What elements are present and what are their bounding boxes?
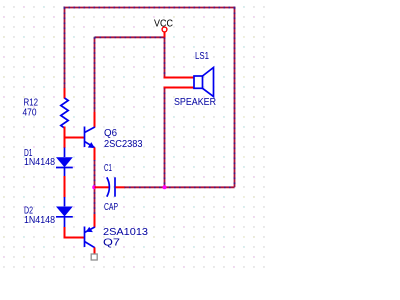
diode D1 lead top: [64, 148, 66, 158]
capacitor C1 pin left: [95, 186, 111, 188]
svg-text:CAP: CAP: [104, 202, 118, 213]
transistor Q7 collector diagonal: [85, 242, 95, 248]
junction at C1 left: [92, 185, 96, 189]
wire VCC horizontal: [95, 36, 165, 38]
wire D2 to Q7 base: [64, 227, 85, 239]
wire Q6 base: [64, 137, 85, 139]
junction at speaker drop: [163, 185, 167, 189]
transistor Q7 collector pin: [94, 248, 96, 255]
transistor Q6 emitter diagonal: [85, 142, 95, 148]
wire R12 to D1: [64, 138, 66, 149]
diode D2 body: [56, 207, 73, 217]
transistor Q7 emitter pin: [94, 214, 96, 228]
transistor Q7 emitter diagonal: [85, 227, 95, 233]
no-connect marker Q7 collector: [91, 254, 97, 260]
transistor Q6 emitter arrow: [88, 142, 95, 148]
transistor Q7 emitter arrow: [86, 227, 93, 232]
speaker LS1 pin 1: [164, 77, 195, 79]
wire cap to right drop: [124, 186, 235, 188]
grid dots: [0, 0, 269, 272]
wire D1 to D2: [64, 176, 66, 198]
wire right drop: [234, 8, 236, 188]
svg-text:LS1: LS1: [195, 51, 209, 62]
resistor R12 pin top: [64, 88, 66, 99]
capacitor C1 straight plate: [114, 177, 116, 196]
svg-text:1N4148: 1N4148: [24, 157, 55, 168]
svg-text:SPEAKER: SPEAKER: [174, 97, 216, 108]
svg-text:C1: C1: [104, 163, 112, 174]
wire Q6 collector drop: [94, 37, 96, 113]
diode D1 cathode bar: [56, 167, 73, 169]
diode D2 lead top: [64, 197, 66, 206]
power port VCC circle: [162, 27, 167, 32]
diode D1 body: [56, 157, 73, 167]
wire speaker lower drop: [164, 88, 166, 188]
svg-text:Q6: Q6: [104, 128, 117, 139]
svg-text:Q7: Q7: [103, 238, 121, 249]
wire junction to Q7 emitter: [94, 187, 96, 215]
transistor Q6 collector pin: [94, 112, 96, 128]
speaker LS1 horn: [203, 68, 214, 97]
diode D1 lead bottom: [64, 168, 66, 177]
speaker LS1 pin 2: [164, 87, 195, 89]
resistor R12 body: [61, 98, 68, 128]
diode D2 lead bottom: [64, 217, 66, 228]
wire left drop to R12: [64, 8, 66, 90]
transistor Q6 bar: [84, 127, 86, 148]
capacitor C1 curved plate: [107, 177, 110, 196]
transistor Q6 collector diagonal: [85, 127, 95, 133]
svg-text:470: 470: [23, 108, 37, 119]
transistor Q7 bar: [84, 227, 86, 248]
speaker LS1 box: [194, 76, 203, 88]
svg-text:2SA1013: 2SA1013: [103, 227, 148, 238]
svg-text:1N4148: 1N4148: [24, 215, 55, 226]
diode D2 cathode bar: [56, 216, 73, 218]
wire speaker upper drop: [164, 37, 166, 77]
capacitor C1 pin right: [116, 186, 125, 188]
svg-text:VCC: VCC: [154, 18, 173, 29]
resistor R12 pin bottom: [64, 127, 66, 139]
svg-text:2SC2383: 2SC2383: [104, 139, 143, 150]
transistor Q6 emitter pin: [94, 148, 96, 161]
wire Q6 emitter to junction: [94, 160, 96, 188]
power port VCC stub: [164, 32, 166, 38]
wire top rail: [64, 7, 236, 9]
